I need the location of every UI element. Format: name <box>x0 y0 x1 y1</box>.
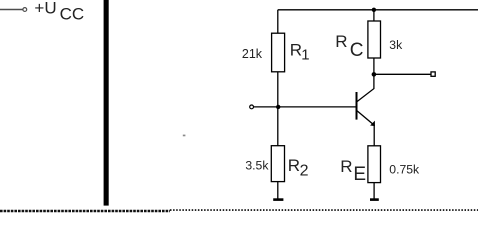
bottom dotted border right segment <box>170 209 478 211</box>
svg-text:R: R <box>340 157 352 176</box>
svg-text:C: C <box>350 40 364 61</box>
node +Ucc open terminal circle <box>23 8 27 12</box>
svg-text:E: E <box>353 164 366 185</box>
svg-text:3k: 3k <box>389 38 403 52</box>
wire rail junction down to RC <box>373 10 375 21</box>
stray gray mark <box>183 135 186 137</box>
wire input terminal to transistor base <box>254 106 356 108</box>
node junction dot rail/RC <box>372 8 376 12</box>
resistor R1 body <box>272 33 285 72</box>
resistor RC body <box>368 21 381 58</box>
wire RE bottom to ground <box>373 183 375 199</box>
bottom dotted border left segment <box>0 210 170 212</box>
transistor Q1 base bar <box>356 92 358 120</box>
svg-text:+U: +U <box>34 0 56 17</box>
svg-text:3.5k: 3.5k <box>245 158 269 172</box>
node output square terminal <box>431 72 435 76</box>
wire RC bottom to collector node <box>373 58 375 74</box>
wire R1 bottom to R2 top through base node <box>277 72 279 146</box>
transistor Q1 emitter arrowhead <box>370 121 375 127</box>
transistor Q1 collector lead <box>357 74 374 101</box>
wire supply lead to +Ucc terminal <box>0 9 23 11</box>
svg-text:21k: 21k <box>242 47 263 61</box>
node junction dot collector/output <box>372 72 377 77</box>
wire collector node to output terminal <box>374 73 431 75</box>
svg-text:R: R <box>288 156 300 175</box>
wire top supply rail <box>278 9 478 11</box>
ground bar below R2 <box>273 198 283 201</box>
wire R2 bottom to ground <box>277 182 279 199</box>
ground bar below RE <box>370 198 379 201</box>
label R2 <box>288 156 309 179</box>
svg-text:R: R <box>335 32 347 51</box>
node input open terminal circle <box>250 105 254 109</box>
resistor R2 body <box>271 146 284 182</box>
svg-text:0.75k: 0.75k <box>389 163 420 177</box>
label +Ucc <box>34 0 84 24</box>
svg-text:R: R <box>290 40 302 59</box>
transistor Q1 emitter lead <box>357 111 374 146</box>
svg-text:1: 1 <box>301 47 309 64</box>
label RC <box>335 32 363 61</box>
svg-text:2: 2 <box>300 162 309 179</box>
label R1 <box>290 40 310 63</box>
svg-text:CC: CC <box>60 5 85 24</box>
window divider vertical black bar <box>104 0 109 206</box>
resistor RE body <box>368 146 381 183</box>
node junction dot at base wire <box>276 105 280 109</box>
label RE <box>340 157 366 185</box>
wire rail down to R1 <box>277 10 279 34</box>
